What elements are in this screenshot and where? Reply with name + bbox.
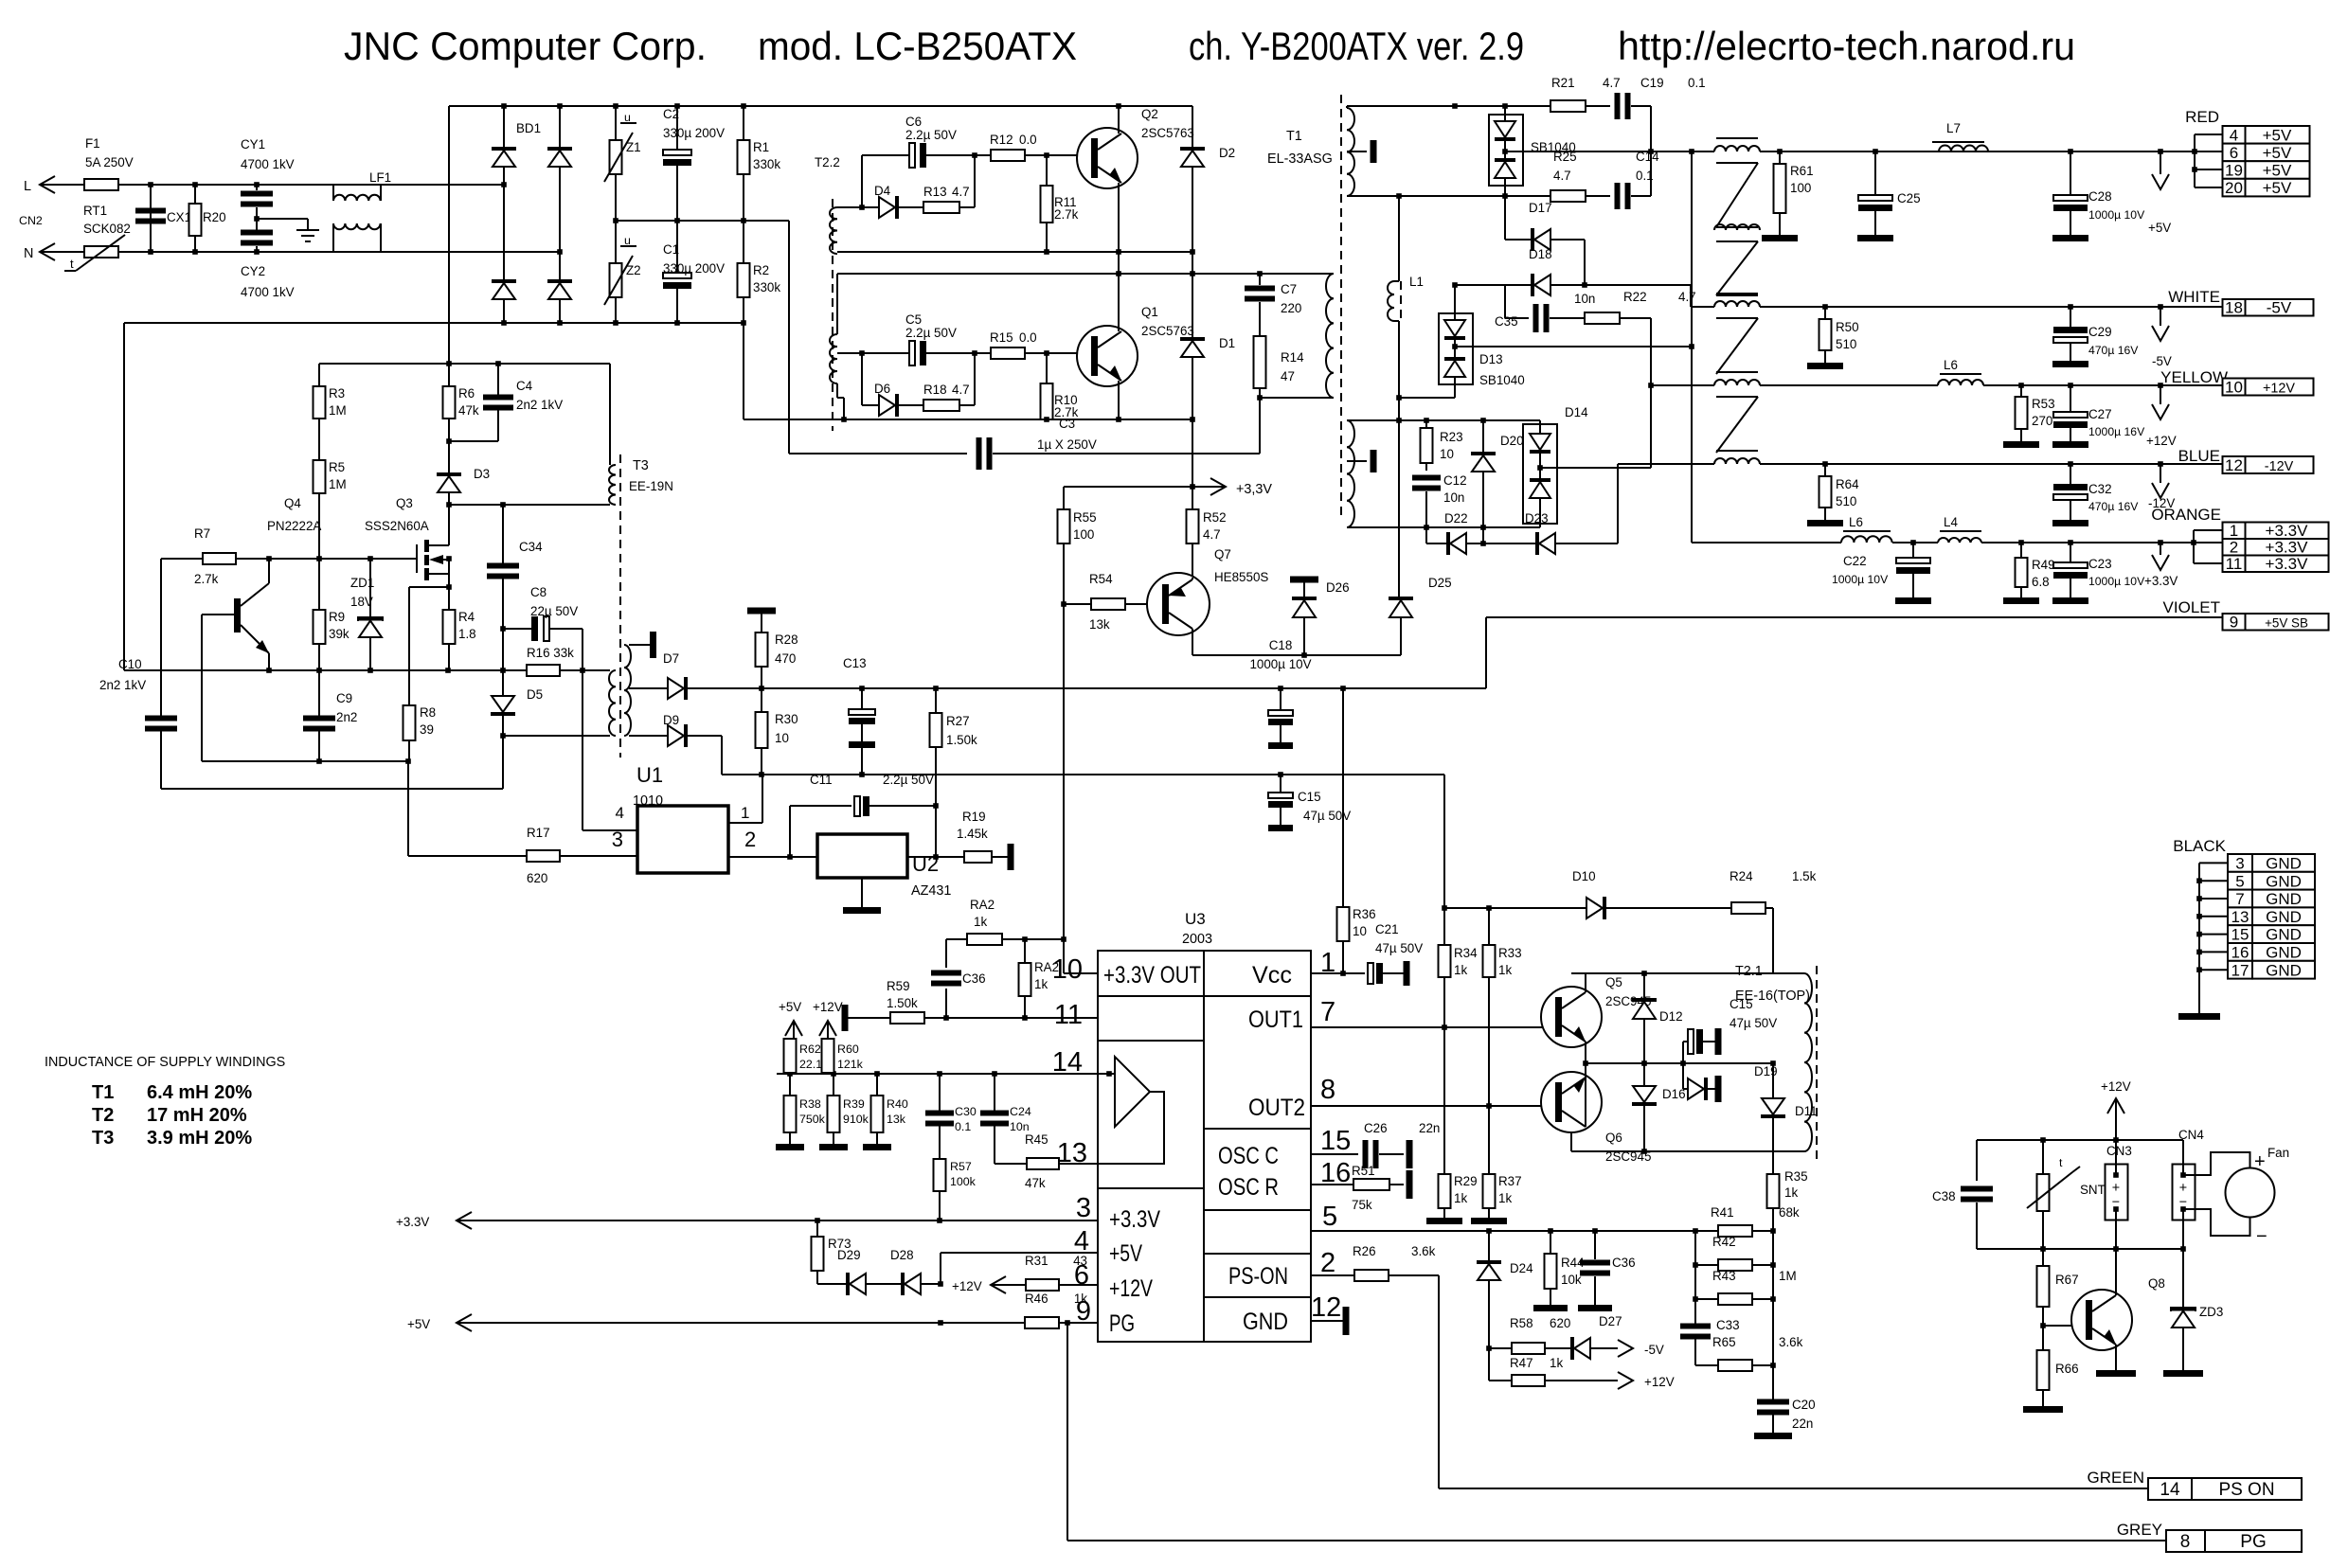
svg-text:1k: 1k [974,915,987,929]
svg-text:2: 2 [744,828,756,851]
svg-text:Q5: Q5 [1605,975,1622,989]
transistor Q1 2SC5763 [1077,305,1194,386]
svg-text:CY1: CY1 [241,137,265,151]
svg-text:22µ 50V: 22µ 50V [530,604,578,618]
transformer T3 core [619,454,621,757]
node +12V down arrow [2146,385,2177,448]
svg-text:0.1: 0.1 [955,1120,971,1133]
svg-text:13: 13 [2231,908,2249,926]
svg-text:CN4: CN4 [2178,1128,2204,1142]
svg-text:D2: D2 [1219,146,1235,160]
diode D12 [1632,973,1683,1063]
svg-text:10k: 10k [1561,1273,1582,1287]
inductor L4 [1938,515,1981,543]
wire bottom rail [124,322,744,324]
svg-text:C20: C20 [1792,1398,1816,1412]
svg-text:R66: R66 [2055,1362,2079,1376]
resistor R65 [1695,1335,1803,1371]
node +12V arrow fan [2101,1079,2131,1140]
resistor R11 [1041,155,1079,252]
svg-text:D23: D23 [1525,511,1549,526]
diode D24 [1477,1231,1533,1348]
diode BD1 top-right [547,106,572,252]
svg-text:T1: T1 [92,1082,114,1103]
svg-text:+: + [2179,1181,2187,1196]
svg-text:3.6k: 3.6k [1779,1335,1803,1349]
svg-text:Q3: Q3 [396,496,413,510]
capacitor C26 [1363,1121,1441,1168]
svg-text:CY2: CY2 [241,264,265,278]
diode BD1 bottom-right [547,252,572,323]
wire Q2e-Q1c link [1118,252,1120,294]
svg-text:R57: R57 [950,1160,972,1173]
svg-text:750k: 750k [799,1113,826,1126]
svg-text:11: 11 [2226,555,2243,573]
svg-text:u: u [624,234,631,247]
wire D25 riser [1398,420,1400,598]
transformer T3 primary winding [609,465,616,505]
capacitor C4 [449,364,563,441]
svg-text:L6: L6 [1944,358,1958,372]
svg-text:CN3: CN3 [2106,1144,2132,1158]
svg-text:4.7: 4.7 [1553,169,1571,183]
svg-text:10n: 10n [1574,292,1595,306]
diode D3 [437,441,490,505]
resistor R61 [1762,151,1814,241]
wire +5VSB / C18 main line [762,687,1486,689]
svg-text:-12V: -12V [2265,459,2294,474]
svg-text:12: 12 [2225,456,2243,474]
wire pin14 line [777,1073,1115,1075]
diode D16 [1632,1063,1686,1151]
svg-text:4.7: 4.7 [952,383,970,397]
svg-text:R59: R59 [887,979,910,993]
wire SB1040 lower to D17 [1504,196,1506,240]
resistor R28 [747,608,798,689]
wire main vertical x474 [448,106,450,364]
svg-text:R18: R18 [923,383,947,397]
resistor R34 [1439,908,1479,1027]
wire x1477 link [1398,398,1400,420]
svg-text:D10: D10 [1572,869,1596,883]
resistor R22 [1585,290,1696,385]
diode D25 [1389,576,1452,655]
svg-text:OUT2: OUT2 [1248,1095,1305,1121]
wire pin9 PG line [457,1322,1025,1324]
svg-text:15: 15 [2231,926,2249,944]
wire C26 pin15 [1311,1153,1358,1155]
svg-text:R7: R7 [194,526,210,541]
diode D22 [1426,511,1535,555]
capacitor C19 [1615,76,1706,119]
svg-text:100k: 100k [950,1175,977,1188]
capacitor C13 [843,656,875,775]
capacitor C23 [2052,543,2145,604]
wire Q6 collector to bottom line [1570,1132,1572,1151]
transistor Q3 SSS2N60A [365,496,449,580]
U3 amplifier triangle [1098,1057,1164,1164]
resistor R12 [975,133,1077,161]
capacitor C36b [1578,1231,1636,1311]
svg-text:C33: C33 [1716,1318,1740,1332]
capacitor C15 47u [1268,775,1351,831]
wire GREY PG line [1067,1540,2166,1541]
svg-text:C4: C4 [516,379,533,393]
wire Q2 collector [1118,106,1120,134]
svg-text:R15: R15 [990,330,1013,345]
svg-text:+12V: +12V [2263,382,2295,397]
transistor Q5 2SC945 [1541,975,1651,1047]
svg-text:C36: C36 [962,971,986,986]
connector YELLOW +12V [2160,368,2313,397]
wire x1872 column [1772,1231,1774,1399]
svg-text:2: 2 [1320,1248,1335,1278]
svg-text:GREY: GREY [2117,1521,2162,1539]
output choke middle winding [1714,224,1760,230]
svg-text:3: 3 [612,828,623,851]
svg-text:R31: R31 [1025,1254,1048,1268]
svg-text:C27: C27 [2088,407,2112,421]
svg-text:T2.2: T2.2 [815,155,840,169]
capacitor C2 [663,106,725,221]
IC U2 AZ431 [790,834,951,899]
svg-text:2n2: 2n2 [336,710,357,724]
wire x1330 down [1259,398,1261,454]
svg-text:mod. LC-B250ATX: mod. LC-B250ATX [758,24,1077,68]
svg-text:LF1: LF1 [369,170,391,185]
svg-text:U3: U3 [1185,910,1206,928]
transistor Q7 HE8550S [1147,547,1268,635]
svg-text:SCK082: SCK082 [83,222,131,236]
output choke Z links [1716,163,1758,295]
wire R8 bottom to R17 line [407,761,409,856]
transformer T3 secondary winding [624,645,631,736]
output choke Z link 3 [1716,397,1758,453]
capacitor C6 [837,115,975,207]
svg-text:+5V: +5V [2148,221,2171,235]
svg-text:T3: T3 [92,1128,114,1149]
svg-text:R6: R6 [458,386,475,401]
svg-text:39: 39 [420,722,434,737]
output choke Z link 2 [1716,318,1758,374]
resistor R53 [2003,385,2055,448]
svg-text:R8: R8 [420,705,436,720]
capacitor C11 [790,773,936,857]
capacitor C25 [1857,151,1921,241]
connector BLACK GND block [2173,837,2315,979]
capacitor C18 [1249,638,1311,749]
wire lower secondary bottom line [1347,526,1400,528]
svg-text:8: 8 [1320,1075,1335,1105]
svg-text:+5V: +5V [2263,179,2292,197]
svg-text:D26: D26 [1326,580,1350,595]
svg-text:+5V: +5V [407,1317,430,1331]
connector BLUE -12V [2178,447,2314,474]
wire CY mid to earth [256,207,258,230]
svg-text:10: 10 [775,731,789,745]
wire L1/D13 bottom link [1399,397,1455,399]
IC U3 2003 box [1098,910,1311,1342]
diode D27 [1570,1314,1622,1360]
svg-text:2.2µ 50V: 2.2µ 50V [905,128,957,142]
capacitor C36 [931,939,986,1018]
diode D5 [491,670,543,736]
svg-text:+12V: +12V [2146,434,2177,448]
wire L line [40,184,84,186]
wire Q5/Q6 block top line [1571,972,1804,974]
diode D17 [1505,201,1585,251]
wire pin11 line [848,1017,1098,1019]
svg-text:GND: GND [2266,908,2302,926]
svg-text:+3.3V OUT: +3.3V OUT [1103,962,1201,989]
wire mid rail to C3 drop [788,221,790,454]
svg-text:D13: D13 [1479,352,1503,366]
svg-text:5: 5 [1322,1202,1337,1232]
capacitor C7 [1245,274,1301,336]
svg-text:ZD1: ZD1 [350,576,374,590]
connector WHITE -5V [2168,288,2313,317]
svg-text:1k: 1k [1550,1356,1563,1370]
wire Q1 collector [1118,274,1120,331]
svg-text:D3: D3 [474,467,490,481]
svg-text:4700 1kV: 4700 1kV [241,157,295,171]
svg-text:u: u [624,111,631,124]
svg-text:OSC C: OSC C [1218,1143,1279,1169]
svg-text:1: 1 [2230,522,2238,540]
svg-text:+3.3V: +3.3V [396,1215,429,1229]
svg-text:R29: R29 [1454,1174,1478,1188]
connector GREY 8 PG [2117,1521,2302,1552]
svg-text:R35: R35 [1784,1169,1808,1184]
wire line B [837,273,1334,275]
transformer T2.2 core [832,199,833,431]
zener ZD1 [350,559,383,670]
svg-text:2003: 2003 [1182,932,1212,947]
resistor R7 [194,526,244,586]
node +3.3V arrow left [396,1212,472,1229]
svg-text:−: − [2256,1226,2267,1247]
diode D26 [1290,577,1350,656]
svg-text:1.50k: 1.50k [887,996,918,1010]
svg-text:R41: R41 [1711,1205,1734,1220]
resistor R39 [819,1074,869,1150]
resistor R6 [443,364,479,441]
wire R51 pin16 [1311,1184,1353,1185]
svg-text:R14: R14 [1281,350,1304,365]
transformer T3 aux winding [609,670,616,736]
resistor R54 [1064,572,1148,632]
capacitor C30 [925,1074,977,1159]
svg-text:R53: R53 [2032,397,2055,411]
svg-text:470µ 16V: 470µ 16V [2088,500,2139,513]
svg-text:5A 250V: 5A 250V [85,155,134,169]
svg-text:R46: R46 [1025,1292,1048,1306]
resistor R51 [1352,1164,1413,1212]
svg-text:R38: R38 [799,1097,821,1111]
capacitor C3 [789,417,1260,470]
svg-text:1k: 1k [1034,977,1048,991]
svg-text:22n: 22n [1792,1417,1813,1431]
svg-text:R5: R5 [329,460,345,474]
resistor R9 [314,559,349,670]
wire T3 top rail right leg [609,364,611,465]
resistor R4 [443,587,476,670]
node -5V down arrow [2152,307,2172,368]
svg-text:CN2: CN2 [19,214,43,227]
svg-text:14: 14 [2160,1480,2180,1500]
svg-text:D17: D17 [1529,201,1552,215]
svg-text:D28: D28 [890,1248,914,1262]
wire D10 line [1444,907,1586,909]
svg-text:D25: D25 [1428,576,1452,590]
wire -5V jog [1690,285,1692,307]
svg-text:JNC Computer Corp.: JNC Computer Corp. [344,24,707,68]
svg-text:Q7: Q7 [1214,547,1231,561]
svg-text:GND: GND [2266,961,2302,979]
wire pin3 line [457,1220,1098,1221]
svg-text:620: 620 [527,871,547,885]
wire pin10 line [1064,972,1098,974]
svg-text:R1: R1 [753,140,769,154]
wire y833 line [161,788,503,790]
svg-text:47: 47 [1281,369,1295,383]
svg-text:R67: R67 [2055,1273,2079,1287]
svg-text:75k: 75k [1352,1198,1372,1212]
svg-text:R16 33k: R16 33k [527,646,574,660]
svg-text:C6: C6 [905,115,922,129]
wire Q7 emitter [1192,578,1193,579]
resistor R23 [1421,420,1463,463]
dual diode D14 [1523,405,1588,527]
wire to RED connector [2194,134,2196,187]
svg-text:C26: C26 [1364,1121,1388,1135]
svg-text:GND: GND [2266,890,2302,908]
svg-text:Q6: Q6 [1605,1131,1622,1145]
svg-text:R43: R43 [1712,1269,1736,1283]
svg-text:1k: 1k [1074,1292,1087,1306]
node +5V down arrow [2148,151,2171,235]
svg-text:R47: R47 [1510,1356,1533,1370]
resistor R5 [314,419,347,559]
inductor LF1 [257,170,449,252]
svg-text:2n2 1kV: 2n2 1kV [99,678,146,692]
svg-text:D9: D9 [663,713,679,727]
svg-text:R17: R17 [527,826,550,840]
svg-text:L4: L4 [1944,515,1958,529]
resistor R29 [1426,1027,1478,1224]
svg-text:C2: C2 [663,107,679,121]
capacitor C29 [2052,307,2139,367]
svg-text:R64: R64 [1836,477,1859,491]
svg-text:+5V: +5V [2263,162,2292,180]
svg-text:470µ 16V: 470µ 16V [2088,344,2139,357]
capacitor C38 [1932,1140,1993,1249]
svg-text:D11: D11 [1795,1104,1818,1118]
svg-text:L: L [24,179,31,194]
svg-text:+3.3V: +3.3V [2266,539,2309,557]
resistor RA2 horizontal [967,898,1002,945]
svg-text:SB1040: SB1040 [1479,373,1525,387]
svg-text:PG: PG [1109,1310,1135,1337]
svg-text:R4: R4 [458,610,475,624]
connector CN3 [2106,1140,2132,1249]
svg-text:15: 15 [1320,1126,1351,1156]
varistor Z1 [604,106,641,221]
wire Q7 collector to y692 [1192,629,1193,655]
svg-text:9: 9 [2230,614,2238,632]
resistor R40 [863,1074,908,1150]
svg-text:+12V: +12V [2101,1079,2131,1094]
wire base line y590 [161,558,417,560]
capacitor C22 [1832,543,1931,604]
resistor R58 [1489,1316,1570,1354]
svg-text:ZD3: ZD3 [2199,1305,2223,1319]
svg-text:RT1: RT1 [83,204,107,218]
svg-text:C23: C23 [2088,557,2112,571]
thermistor RT1 [64,204,131,271]
svg-text:GND: GND [1243,1309,1288,1335]
svg-text:510: 510 [1836,494,1856,508]
wire PS-ON pin2 line [1311,1274,1354,1276]
svg-text:AZ431: AZ431 [911,883,951,899]
svg-text:C21: C21 [1375,922,1399,936]
svg-text:R36: R36 [1353,907,1376,921]
diode D28 [890,1248,941,1295]
svg-text:D7: D7 [663,651,679,666]
transformer T2.1 winding [1735,964,1817,1159]
resistor R15 [975,330,1077,359]
svg-text:39k: 39k [329,627,349,641]
svg-text:20: 20 [2225,179,2243,197]
wire RA2 line [946,938,1064,940]
svg-text:1M: 1M [329,477,347,491]
svg-text:330µ 200V: 330µ 200V [663,261,725,276]
resistor R27 [930,688,978,857]
svg-text:OUT1: OUT1 [1248,1007,1303,1033]
diode D10 [1572,869,1731,919]
svg-text:-5V: -5V [1644,1343,1664,1357]
node +5V arrow left [407,1314,472,1331]
wire D14 mid to +12V riser [1540,467,1651,469]
svg-text:100: 100 [1073,527,1094,542]
svg-text:RED: RED [2185,108,2219,126]
svg-text:C38: C38 [1932,1189,1956,1203]
connector RED +5V block [2185,108,2309,197]
resistor R21 [1550,76,1621,112]
diode D4 [862,184,923,219]
svg-text:C28: C28 [2088,189,2112,204]
svg-text:1000µ 10V: 1000µ 10V [2088,575,2145,588]
wire top rail [449,105,1192,107]
wire +5VSB line [1486,616,2222,618]
svg-text:1000µ 10V: 1000µ 10V [1249,657,1311,671]
capacitor C20 [1754,1398,1816,1439]
svg-text:220: 220 [1281,301,1301,315]
svg-text:t: t [2059,1156,2063,1169]
svg-text:D14: D14 [1565,405,1588,419]
svg-text:C9: C9 [336,691,352,705]
svg-text:D4: D4 [874,184,891,198]
svg-text:SSS2N60A: SSS2N60A [365,519,429,533]
svg-text:C8: C8 [530,585,547,599]
resistor R73 [812,1221,851,1284]
svg-text:R45: R45 [1025,1132,1048,1147]
transistor Q6 2SC945 [1541,1072,1651,1164]
wire y818 corner down to D10 line [1443,775,1445,908]
capacitor C15b [1683,997,1777,1063]
svg-text:2.7k: 2.7k [1054,207,1079,222]
wire x131 left frame [123,323,125,670]
